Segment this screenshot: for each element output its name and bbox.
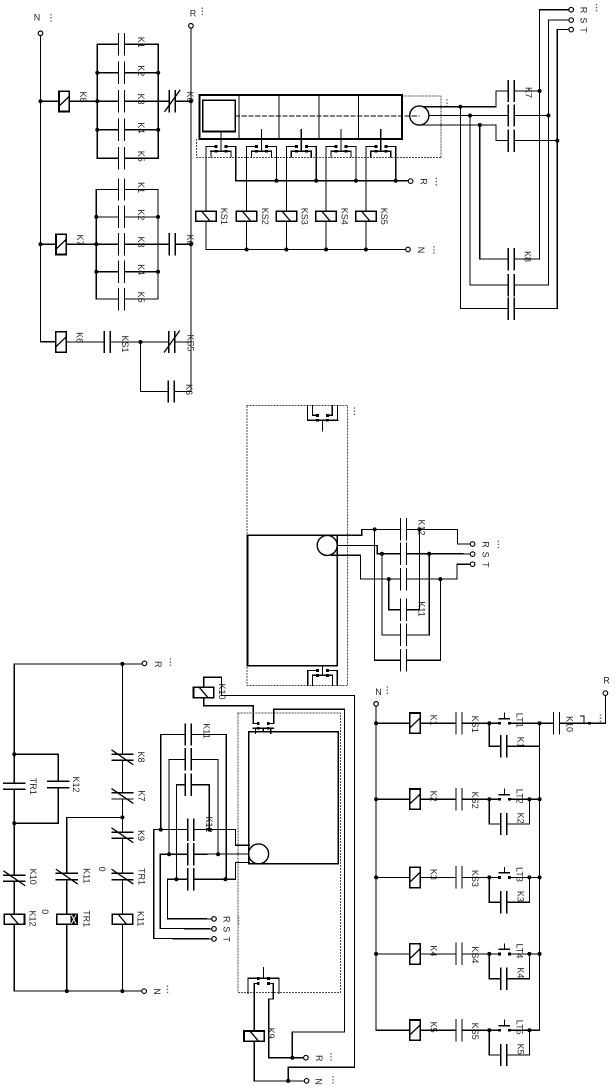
relay coil K7	[56, 234, 66, 254]
continuation dots N (G bottom)	[332, 1076, 334, 1078]
svg-text:R: R	[153, 661, 163, 668]
svg-text:K12: K12	[71, 776, 81, 792]
wire K11 row1 out up to K12 row1	[407, 529, 420, 609]
terminal R (section A)	[189, 24, 194, 29]
contactor K12g pole2	[187, 844, 189, 865]
contact TR1 (left column)	[4, 782, 25, 784]
node rung2 right-bus	[538, 797, 542, 801]
wire rung1 left	[41, 100, 60, 102]
svg-text:K6: K6	[184, 384, 194, 395]
node K12 row3 right tap	[438, 577, 442, 581]
wire parallel branch bottom	[14, 822, 58, 824]
wire motor-B phase2	[429, 115, 509, 117]
wire motor-B phase3	[421, 124, 496, 126]
wire T riser	[557, 30, 569, 309]
contact K5 seal (section F)	[500, 1045, 502, 1066]
svg-text:R: R	[579, 7, 589, 14]
continuation dots R (G bottom)	[330, 1053, 332, 1055]
cam switch stem cell5	[380, 130, 382, 140]
node N bus junction	[324, 248, 328, 252]
node group1 left K2	[95, 71, 99, 75]
wire K8 pole1 to R riser	[514, 258, 539, 260]
node rung3 branch-left	[487, 875, 491, 879]
wire cam-G right out to R net	[274, 709, 345, 1057]
contact K3 seal (section F)	[500, 892, 502, 913]
wire N bus (section F)	[376, 706, 410, 1030]
wire K9 to TR1 NC	[121, 838, 123, 873]
wire K11g row3 right down to row1	[191, 785, 209, 830]
wire rung4 LT4 to bus	[511, 953, 540, 955]
node group2 right K2	[156, 215, 160, 219]
wire motor-B phase1	[423, 106, 496, 108]
wire rung4 coil to KS4	[420, 953, 456, 955]
svg-text:KS5: KS5	[470, 1023, 480, 1040]
contact K4 seal (section F)	[500, 968, 502, 989]
svg-text:K8: K8	[136, 751, 146, 762]
relay coil KS3	[276, 211, 296, 221]
relay coil K10	[193, 687, 213, 697]
svg-text:K5: K5	[136, 292, 146, 303]
svg-text:N: N	[416, 247, 426, 254]
svg-text:K4: K4	[136, 264, 146, 275]
wire coil K9 to N row	[254, 1041, 304, 1081]
svg-text:KS4: KS4	[339, 208, 349, 225]
svg-text:KS5: KS5	[186, 334, 196, 351]
cam contact top (section G)	[253, 722, 258, 724]
terminal S (section G)	[212, 927, 217, 932]
wire R riser	[540, 10, 569, 259]
node phase3 tap	[478, 123, 482, 127]
node rung1 right-bus	[538, 721, 542, 725]
wire rung1 group to K6	[125, 100, 170, 102]
node N bus rung3	[374, 875, 378, 879]
node N bus rung4	[374, 952, 378, 956]
wire K12 row1 left down to K11 row3	[375, 529, 401, 660]
relay coil K11 (section E)	[112, 914, 132, 924]
cam switch inner square	[203, 100, 235, 131]
dotted enclosure cam-switch assembly	[402, 95, 441, 97]
svg-text:TR1: TR1	[82, 910, 92, 927]
wire rung3 left	[376, 876, 410, 878]
wire coil KS4 to N bus	[325, 221, 327, 249]
node parallel top	[12, 752, 16, 756]
terminal T (top right)	[569, 27, 574, 32]
svg-text:R: R	[603, 676, 610, 686]
contactor K11 pole1	[400, 599, 402, 620]
contact K3 (group2)	[118, 234, 120, 255]
contactor K11 pole3	[400, 650, 402, 671]
dotted enclosure (section D)	[247, 405, 348, 685]
terminal T (section D)	[470, 562, 475, 567]
svg-text:K7: K7	[137, 790, 147, 801]
cam contact S4	[340, 139, 342, 152]
svg-text:N: N	[152, 988, 162, 995]
wire coil KS3 to N bus	[285, 221, 287, 249]
contactor K12g pole3	[187, 869, 189, 890]
contact KS1 (section F)	[455, 713, 457, 734]
svg-text:K10: K10	[565, 716, 575, 732]
svg-text:K5: K5	[428, 1022, 438, 1033]
svg-text:LT3: LT3	[515, 867, 525, 882]
node rung2 branch-right	[527, 797, 531, 801]
wire rung1 K10 to terminal R	[560, 722, 606, 724]
wire rung3 seal branch	[140, 342, 168, 392]
node rung2 group-left	[94, 242, 98, 246]
svg-text:LT5: LT5	[515, 1020, 525, 1035]
node K7 pole1 R riser	[538, 89, 542, 93]
node rung4 branch-left	[487, 952, 491, 956]
machine body box (section D)	[248, 535, 338, 666]
wire K7 pole1 to R riser	[514, 90, 539, 92]
node K12 row3 left tap	[387, 577, 391, 581]
svg-text:K1: K1	[136, 182, 146, 193]
node rung4 right-bus	[538, 952, 542, 956]
svg-text:LT2: LT2	[515, 789, 525, 804]
NC contact K6 rung1	[168, 91, 170, 112]
svg-text:K2: K2	[428, 791, 438, 802]
node R net (section G)	[290, 1056, 294, 1060]
contactor K12 pole2	[400, 543, 402, 564]
contactor K8 pole3	[507, 298, 509, 319]
cam contact S3	[300, 139, 302, 152]
continuation dots at N	[50, 14, 52, 16]
contact KS4 (section F)	[455, 943, 457, 964]
node parallel bottom	[12, 821, 16, 825]
svg-text:K4: K4	[516, 967, 526, 978]
wire rung1 LT1 to bus	[511, 722, 540, 724]
wire - right R bus section A	[190, 28, 192, 391]
pushbutton LT5	[498, 1029, 501, 1032]
node rung2 R-bus	[189, 242, 193, 246]
wire rung1 to K10 contact	[540, 722, 554, 724]
node rung4 branch-right	[527, 952, 531, 956]
seal branch K1	[489, 723, 500, 746]
contactor K11g pole3	[184, 774, 186, 795]
svg-text:KS2: KS2	[260, 208, 270, 225]
svg-text:KS4: KS4	[470, 946, 480, 963]
timer coil TR1	[57, 914, 77, 924]
wire K10 to coil K12	[13, 881, 15, 914]
plug pin hook	[580, 716, 584, 723]
wire rung1 left	[376, 722, 410, 724]
svg-text:K3: K3	[136, 236, 146, 247]
wire rung3 KS3 to LT3	[462, 876, 498, 878]
cam switch stem cell4	[340, 130, 342, 140]
wire K11g row2 left down	[169, 759, 185, 854]
wire K7 pole3 to T riser	[514, 140, 557, 142]
svg-text:K12: K12	[416, 519, 426, 535]
wire phase2 drop to K8 row2	[470, 116, 508, 286]
continuation dots right of enclosure	[446, 99, 448, 101]
wire coil K10 bottom to cam contact	[204, 698, 254, 724]
wire rung1 coil to group	[69, 100, 118, 102]
NC contact KS5 rung3	[168, 332, 170, 353]
dashed mechanical link	[235, 115, 419, 117]
wire group1 row K5	[97, 157, 118, 159]
svg-text:N: N	[375, 687, 382, 697]
pushbutton LT2	[498, 798, 501, 801]
wire K11 NC to coil TR1	[66, 880, 68, 915]
node K12g row3 K11g-r3	[174, 877, 178, 881]
node K10-net on N row	[286, 1079, 290, 1083]
terminal N (section A)	[38, 31, 43, 36]
node tap to middle column	[120, 815, 124, 819]
terminal R (top right)	[569, 7, 574, 12]
contact K6 seal rung3	[167, 381, 169, 402]
terminal S (top right)	[569, 18, 574, 23]
wire group1 row K2	[97, 72, 118, 74]
node group1 right K2	[156, 71, 160, 75]
node rung3 right-bus	[538, 875, 542, 879]
wire coil KS5 to N bus	[365, 221, 367, 249]
wire R bus (section B)	[236, 180, 408, 182]
wire cam S3 left lead down to coil KS3	[285, 146, 287, 211]
relay coil K1 (section F)	[410, 713, 420, 733]
node R feed	[120, 662, 124, 666]
wire rung5 LT5 to bus	[511, 1029, 540, 1031]
node N bus rung2	[374, 797, 378, 801]
wire cam S5 right lead down to R bus	[395, 146, 397, 180]
node rung2 branch-left	[487, 797, 491, 801]
node R bus junction	[394, 179, 398, 183]
wire rung1 K6 to R bus	[175, 100, 191, 102]
node K12 row1 right tap	[417, 527, 421, 531]
node K12g row1 K11g-r3out	[207, 828, 211, 832]
node K12g row2 K11g-r2out	[216, 852, 220, 856]
svg-text:K3: K3	[516, 891, 526, 902]
wire rung1 KS1 to LT1	[462, 722, 498, 724]
contact K2 (group1)	[118, 62, 120, 83]
svg-text:TR1: TR1	[28, 778, 38, 795]
node R bus junction	[354, 179, 358, 183]
dotted enclosure (section G)	[238, 713, 340, 993]
wire N bus (section B)	[206, 249, 406, 251]
node N bus junction	[245, 248, 249, 252]
wire group2 right branch vertical	[157, 190, 159, 300]
svg-text:R: R	[419, 178, 429, 185]
pushbutton LT1	[498, 722, 501, 725]
pushbutton LT3	[498, 876, 501, 879]
terminal S (section D)	[470, 552, 475, 557]
wire group2 row K4	[96, 271, 118, 273]
wire rung4 left	[376, 953, 410, 955]
terminal T (section G)	[212, 937, 217, 942]
wire K12-contact column upper	[57, 754, 59, 781]
wire R feed top (section E)	[14, 663, 142, 665]
contact K2 seal (section F)	[500, 814, 502, 835]
NC contact K11 (section E)	[56, 872, 77, 874]
node phase2 tap	[468, 114, 472, 118]
node rung3 branch	[138, 340, 142, 344]
contact K6 rung2	[168, 234, 170, 255]
motor circle M (section B)	[410, 106, 429, 125]
NC contact K7 (section E)	[112, 792, 133, 794]
svg-text:K4: K4	[428, 945, 438, 956]
relay coil KS5	[356, 211, 376, 221]
svg-text:LT1: LT1	[515, 713, 525, 728]
wire right bus (section F)	[539, 723, 541, 1030]
wire group1 row K1	[97, 43, 118, 45]
node K12g row3 K11g-r1out	[223, 877, 227, 881]
contactor K12 pole3	[400, 569, 402, 590]
node N bus junction	[284, 248, 288, 252]
svg-text:S: S	[579, 17, 589, 23]
svg-text:T: T	[481, 562, 491, 568]
continuation dots RST (top right)	[596, 4, 598, 6]
contact K1 (group2)	[118, 179, 120, 200]
NC contact K10	[4, 874, 25, 876]
wire rung3 coil to KS3	[420, 876, 456, 878]
svg-text:KS1: KS1	[219, 208, 229, 225]
seal branch K2	[489, 799, 500, 824]
relay coil K8	[59, 91, 69, 111]
seal branch K4	[489, 954, 500, 979]
wire group2 row K1	[96, 189, 118, 191]
terminal R (section E)	[142, 661, 147, 666]
wire K7 pole2 to S riser	[514, 115, 548, 117]
contactor K12g pole1	[187, 819, 189, 840]
contact KS3 (section F)	[455, 867, 457, 888]
svg-text:R: R	[222, 916, 232, 923]
wire K11g row1 right down to row3	[191, 735, 226, 880]
NC contact TR1 (timer)	[112, 872, 133, 874]
node rung2-left	[39, 242, 43, 246]
wire K7 to K9	[121, 799, 123, 832]
svg-text:KS3: KS3	[470, 870, 480, 887]
wire R stub	[168, 918, 212, 920]
node K7 pole2 S riser	[546, 114, 550, 118]
wire K12 pole3 to terminal T	[407, 564, 471, 579]
node R bus junction	[314, 179, 318, 183]
svg-text:N: N	[314, 1078, 324, 1085]
wire rung4 KS4 to LT4	[462, 953, 498, 955]
continuation dots N (section B)	[433, 246, 435, 248]
svg-text:KS2: KS2	[470, 792, 480, 809]
wire phase3 drop to K8 row3	[460, 107, 508, 309]
wire N bus (section E)	[14, 990, 142, 992]
wire coil TR1 to N bus	[66, 924, 68, 991]
wire group2 row K2	[96, 216, 118, 218]
node K12 row2 left tap	[380, 552, 384, 556]
node rung5 branch-right	[527, 1028, 531, 1032]
pushbutton LT4	[498, 952, 501, 955]
wire K12-contact column lower	[57, 788, 59, 824]
wire rung3 LT3 to bus	[511, 876, 540, 878]
contactor K11 pole2	[400, 624, 402, 645]
svg-text:KS1: KS1	[120, 335, 130, 352]
wire coil KS1 to N bus	[205, 221, 207, 249]
relay coil K3 (section F)	[410, 867, 420, 887]
contactor K12 pole1	[400, 519, 402, 540]
svg-text:KS5: KS5	[379, 208, 389, 225]
wire rung3 KS1 to KS5	[110, 341, 169, 343]
svg-text:S: S	[481, 552, 491, 558]
contactor K7 pole2	[507, 105, 509, 126]
contact KS1 rung3	[103, 332, 105, 353]
relay coil K12	[4, 914, 24, 924]
svg-text:TR1: TR1	[137, 868, 147, 885]
wire rung2 left	[376, 798, 410, 800]
svg-text:K5: K5	[136, 151, 146, 162]
continuation dots R (section E)	[170, 658, 172, 660]
wire S stub	[160, 927, 211, 930]
wire S riser	[548, 20, 569, 285]
wire rung2 KS2 to LT2	[462, 798, 498, 800]
continuation dots (section D enclosure)	[354, 407, 356, 409]
wire K11 row2 out up to K12 row2	[407, 554, 430, 635]
contactor K7 pole3	[507, 130, 509, 151]
continuation dots at R	[202, 7, 204, 9]
node rung1 R-bus	[189, 99, 193, 103]
svg-text:K3: K3	[136, 93, 146, 104]
svg-text:K1: K1	[428, 715, 438, 726]
svg-text:K7: K7	[524, 87, 534, 98]
svg-text:K5: K5	[516, 1044, 526, 1055]
seal branch K5	[489, 1030, 500, 1055]
svg-text:R: R	[481, 541, 491, 548]
wire motor-G phase3 to K12g row3	[195, 862, 250, 879]
node group1 right K4	[156, 128, 160, 132]
contact K5 (group2)	[118, 289, 120, 310]
wire up to terminal R (section F)	[604, 695, 606, 723]
wire phase1 drop to K8 row1	[480, 125, 509, 259]
cam contact S1	[220, 139, 222, 152]
wire rung2 K6 to R bus	[175, 243, 191, 245]
contactor K7 pole1	[507, 81, 509, 102]
svg-text:0: 0	[97, 867, 107, 872]
node rung5 branch-left	[487, 1028, 491, 1032]
svg-text:K11: K11	[201, 723, 211, 738]
wire cam S4 right lead down to R bus	[355, 146, 357, 180]
wire group1 row K4	[97, 129, 118, 131]
cam contact top of section D	[307, 405, 309, 420]
wire left column mid	[13, 789, 15, 875]
svg-text:KS3: KS3	[300, 208, 310, 225]
terminal R (section D)	[470, 542, 475, 547]
wire rung2 group to K6	[125, 243, 170, 245]
wire K11 row3 out up to K12 row3	[407, 579, 441, 660]
svg-text:R: R	[314, 1055, 324, 1062]
wire rung3 coil to KS1	[66, 341, 104, 343]
wire tap to middle column	[67, 817, 123, 873]
NC contact K9 (section E)	[112, 831, 133, 833]
contactor K11g pole2	[184, 749, 186, 770]
svg-text:LT4: LT4	[515, 943, 525, 958]
relay coil KS4	[316, 211, 336, 221]
svg-text:T: T	[579, 27, 589, 33]
terminal R (section G)	[212, 917, 217, 922]
contact K3 (group1)	[118, 91, 120, 112]
plug contact square	[588, 722, 591, 725]
svg-text:K9: K9	[136, 830, 146, 841]
node N bus rung1	[374, 721, 378, 725]
svg-text:R: R	[190, 9, 197, 19]
contact K4 (group2)	[118, 261, 120, 282]
contact KS5 (section F)	[455, 1020, 457, 1041]
cam switch stem cell3	[300, 130, 302, 140]
wire - left N bus section A	[41, 36, 56, 342]
wire rung3 KS5 to R bus	[175, 341, 191, 343]
wire phase3 down to K7 row3	[496, 125, 508, 141]
wire cam-G-bottom left to coil K9	[254, 984, 258, 1032]
wire cam S2 left lead down to coil KS2	[246, 146, 248, 211]
contact K10 (section F)	[553, 713, 555, 734]
svg-text:K4: K4	[136, 122, 146, 133]
wire T stub	[154, 938, 212, 940]
terminal N (section G bottom)	[304, 1079, 309, 1084]
terminal N (section E)	[142, 989, 147, 994]
contactor K8 pole2	[507, 275, 509, 296]
